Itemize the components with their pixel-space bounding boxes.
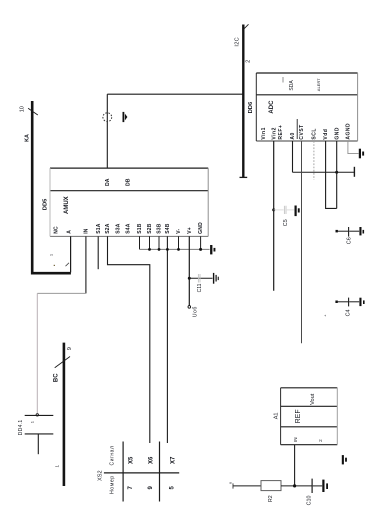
svg-text:GND: GND xyxy=(334,127,340,140)
floating ground right of A1 xyxy=(342,455,347,464)
svg-text:2: 2 xyxy=(246,60,252,63)
svg-text:1: 1 xyxy=(55,465,60,468)
wire CVST long down xyxy=(301,141,303,343)
svg-text:C4: C4 xyxy=(346,309,352,316)
wire resistor to junction xyxy=(281,485,312,487)
wire IN horizontal gray xyxy=(37,292,86,294)
capacitor C5 faint wire and plates xyxy=(274,206,295,214)
svg-text:REF+: REF+ xyxy=(278,125,284,140)
wire pin S1B stub xyxy=(139,236,141,249)
svg-text:IN: IN xyxy=(84,228,90,234)
bus KA corner dot mark xyxy=(54,265,55,266)
svg-text:X7: X7 xyxy=(171,456,177,464)
svg-text:KA: KA xyxy=(25,134,31,142)
bus KA slash mark xyxy=(28,108,38,115)
junction dot at A1 output xyxy=(293,484,296,487)
switch DD4.1 xyxy=(25,414,54,455)
svg-text:C10: C10 xyxy=(306,496,312,506)
svg-text:S3A: S3A xyxy=(116,223,122,234)
wire pin S3B stub xyxy=(158,236,160,249)
rail end bar xyxy=(353,167,355,177)
svg-text:Vdd: Vdd xyxy=(323,129,329,140)
wire Vdd down and right xyxy=(326,141,337,208)
svg-text:IN: IN xyxy=(293,437,298,442)
svg-text:X6: X6 xyxy=(148,456,154,464)
wire start tick xyxy=(232,483,234,488)
svg-text:S4B: S4B xyxy=(165,223,171,234)
wire pin S1A stub xyxy=(97,236,99,269)
wire Vin2 down xyxy=(273,141,275,291)
wire pin A to KA bus xyxy=(70,236,72,272)
wire AGND stub xyxy=(348,141,359,154)
svg-text:BC: BC xyxy=(54,373,60,382)
bus KA corner slash mark xyxy=(66,263,70,266)
wire IN vertical gray to DD4.1 xyxy=(36,293,38,413)
CVST overline xyxy=(296,119,298,139)
block A1 REF box body xyxy=(281,388,338,445)
svg-text:DD6: DD6 xyxy=(248,101,254,113)
svg-text:I2C: I2C xyxy=(234,37,240,47)
wire top horizontal to I2C bus xyxy=(107,93,243,95)
svg-text:REF: REF xyxy=(295,409,302,423)
bus BC slash mark xyxy=(55,357,70,368)
wire DD6 ground rail xyxy=(293,171,355,173)
svg-text:S2A: S2A xyxy=(105,223,111,234)
ground symbol at C10 xyxy=(322,480,328,492)
svg-text:Номер: Номер xyxy=(110,475,116,494)
svg-text:C5: C5 xyxy=(283,219,289,226)
junction dot GND rail xyxy=(335,171,338,174)
svg-text:Vin2: Vin2 xyxy=(271,127,277,139)
svg-text:CVST: CVST xyxy=(299,124,305,139)
svg-text:DD5: DD5 xyxy=(42,198,48,210)
node test point dashed circle xyxy=(103,113,112,122)
svg-text:SDA: SDA xyxy=(289,80,295,91)
svg-text:Vout: Vout xyxy=(310,393,316,405)
AMUX pin labels bottom row xyxy=(54,222,205,234)
svg-text:+: + xyxy=(323,314,327,316)
ground symbol at rail end xyxy=(210,245,215,254)
svg-text:C11: C11 xyxy=(197,283,203,292)
ground symbol at C5 xyxy=(295,206,300,217)
wire pin V- stub xyxy=(178,236,180,249)
svg-text:S1B: S1B xyxy=(137,223,143,234)
junction dots on rail xyxy=(148,248,202,251)
svg-text:V-: V- xyxy=(176,229,182,234)
svg-text:R2: R2 xyxy=(268,495,274,502)
wire to resistor xyxy=(233,485,261,487)
junction dot V+ branch xyxy=(188,277,191,280)
svg-text:S1A: S1A xyxy=(96,223,102,234)
svg-text:ALERT: ALERT xyxy=(316,78,321,91)
wire A1 pin down xyxy=(294,445,296,486)
ground symbol at AGND xyxy=(359,149,364,159)
bus KA (address bus, thick) xyxy=(32,101,71,273)
resistor R2 xyxy=(261,481,281,491)
wire A0 down xyxy=(292,141,294,172)
svg-text:A0: A0 xyxy=(290,132,296,139)
wire pin S2A route to XS2 xyxy=(108,236,150,443)
svg-text:A: A xyxy=(67,230,73,234)
DD6 bottom pin labels xyxy=(261,123,351,140)
wire pin S4B long to XS2 xyxy=(166,236,168,443)
connector XS2 table xyxy=(104,442,179,502)
capacitor C11 plates (faint) xyxy=(197,274,199,283)
svg-text:S4A: S4A xyxy=(126,223,132,234)
wire pin V+ down to Uob xyxy=(188,236,190,305)
svg-text:DA: DA xyxy=(105,178,111,186)
wire GND pin through rail down xyxy=(336,141,338,208)
svg-text:Uоб: Uоб xyxy=(192,306,198,317)
svg-text:NC: NC xyxy=(54,226,60,234)
wire pin GND stub xyxy=(200,236,202,249)
svg-text:1: 1 xyxy=(49,254,53,256)
bus BC (thick) xyxy=(63,343,66,486)
capacitor C10 plate xyxy=(311,479,313,493)
svg-text:S3B: S3B xyxy=(157,223,163,234)
ground symbol (3-bar) at C11 xyxy=(213,273,219,284)
svg-text:10: 10 xyxy=(20,106,26,112)
ground symbol at C6 xyxy=(359,227,364,235)
svg-text:S2B: S2B xyxy=(147,223,153,234)
capacitor C4 to ground xyxy=(335,298,359,307)
svg-text:9: 9 xyxy=(67,347,73,350)
DD6 pin mark near SDA xyxy=(282,77,284,83)
wire pin S2B stub xyxy=(149,236,151,249)
svg-text:х: х xyxy=(228,482,233,484)
svg-text:C6: C6 xyxy=(346,237,352,244)
wire DA output up from AMUX xyxy=(106,94,108,168)
node open circle Uob xyxy=(188,306,191,309)
svg-text:DD4.1: DD4.1 xyxy=(18,420,24,436)
svg-text:A1: A1 xyxy=(274,412,280,419)
svg-text:V+: V+ xyxy=(187,227,193,234)
wire SCL dashed xyxy=(313,141,315,180)
svg-text:ADC: ADC xyxy=(269,100,275,114)
svg-text:X5: X5 xyxy=(129,456,135,464)
svg-text:GND: GND xyxy=(198,222,204,234)
capacitor C6 to ground xyxy=(336,227,360,237)
wire pin IN down xyxy=(85,236,87,293)
svg-text:Vin1: Vin1 xyxy=(261,127,267,139)
wire C10 to ground xyxy=(313,485,323,487)
svg-text:Сигнал: Сигнал xyxy=(109,446,115,466)
wire ground rail below AMUX xyxy=(140,248,210,250)
op multiplexer U-box AMUX body xyxy=(50,168,208,236)
capacitor C11 branch wire xyxy=(189,277,212,279)
svg-text:SCL: SCL xyxy=(312,128,318,140)
bus I2C (thick) xyxy=(242,25,244,178)
svg-text:2: 2 xyxy=(318,439,323,442)
junction dot Vin2 branch xyxy=(272,208,275,211)
ground symbol beside circle xyxy=(123,112,128,122)
svg-text:XS2: XS2 xyxy=(98,470,104,481)
bus I2C slash mark xyxy=(242,24,248,30)
bus I2C end tick xyxy=(240,176,248,178)
ground symbol at C4 xyxy=(359,298,364,306)
block DD6 ADC box body xyxy=(256,73,357,141)
svg-text:AGND: AGND xyxy=(346,123,352,140)
svg-text:DB: DB xyxy=(126,178,132,186)
svg-text:AMUX: AMUX xyxy=(64,196,70,214)
